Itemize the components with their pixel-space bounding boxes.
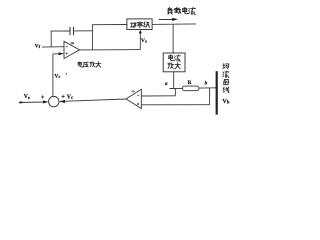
wire stub with arrow into U1 plus input bbox=[53, 52, 64, 55]
wire Vf input line bbox=[42, 46, 64, 48]
plus sign left of summing node bbox=[41, 95, 44, 98]
load current direction arrow bbox=[159, 18, 178, 21]
label 均流母线 vertical bbox=[223, 64, 229, 93]
capacitor C1 bbox=[70, 27, 74, 35]
wire lower line from node b to U2 lower input bbox=[141, 104, 209, 106]
svg-text:Vf: Vf bbox=[35, 44, 41, 50]
svg-text:a: a bbox=[165, 81, 168, 87]
wire node b drop bbox=[209, 88, 211, 105]
wire drop from load line to current amp bbox=[172, 24, 174, 53]
wire resistor to bus bbox=[199, 87, 217, 89]
summing junction circle bbox=[49, 96, 59, 106]
wire load line from power stage bbox=[152, 23, 196, 26]
wire node a to resistor bbox=[170, 87, 184, 89]
wire upper input riser to node a bbox=[174, 88, 176, 95]
wire feedback top right segment bbox=[74, 30, 93, 32]
wire top line into power stage bbox=[92, 24, 127, 26]
svg-text:Vc: Vc bbox=[67, 94, 74, 101]
resistor R bbox=[183, 86, 199, 91]
wire U2 upper input line bbox=[141, 95, 175, 97]
label 负载电流 load current bbox=[168, 7, 196, 14]
plus sign right of summing node bbox=[62, 95, 65, 98]
block 功率级 power stage bbox=[127, 19, 152, 30]
op-amp U1 voltage amplifier bbox=[64, 41, 80, 58]
wire Ve riser with up arrow into power stage bbox=[139, 30, 142, 50]
svg-text:Vr: Vr bbox=[54, 74, 60, 80]
svg-text:Vb: Vb bbox=[222, 99, 229, 106]
wire Vr input with arrow into circle bbox=[19, 100, 48, 103]
wire U2 output to summing node (arrow points left into circle) bbox=[59, 99, 126, 103]
wire op-amp output line bbox=[80, 49, 141, 51]
svg-text:R: R bbox=[188, 80, 193, 86]
svg-text:Vr: Vr bbox=[24, 94, 30, 100]
op-amp U2 current-share amplifier (points left) bbox=[126, 89, 141, 108]
svg-text:b: b bbox=[205, 80, 208, 86]
wire feedback left vertical bbox=[50, 31, 52, 47]
wire riser from circle to op-amp U1 lower input bbox=[52, 54, 54, 96]
wire output riser up bbox=[91, 24, 93, 50]
block 电流放大 current amplifier bbox=[163, 53, 185, 72]
label 电压放大 voltage amplification bbox=[78, 62, 101, 68]
wire from current amp down to node a bbox=[173, 72, 175, 89]
current sharing bus (thick) bbox=[216, 71, 218, 114]
svg-text:Ve: Ve bbox=[141, 38, 147, 44]
wire feedback top left segment bbox=[51, 30, 70, 32]
